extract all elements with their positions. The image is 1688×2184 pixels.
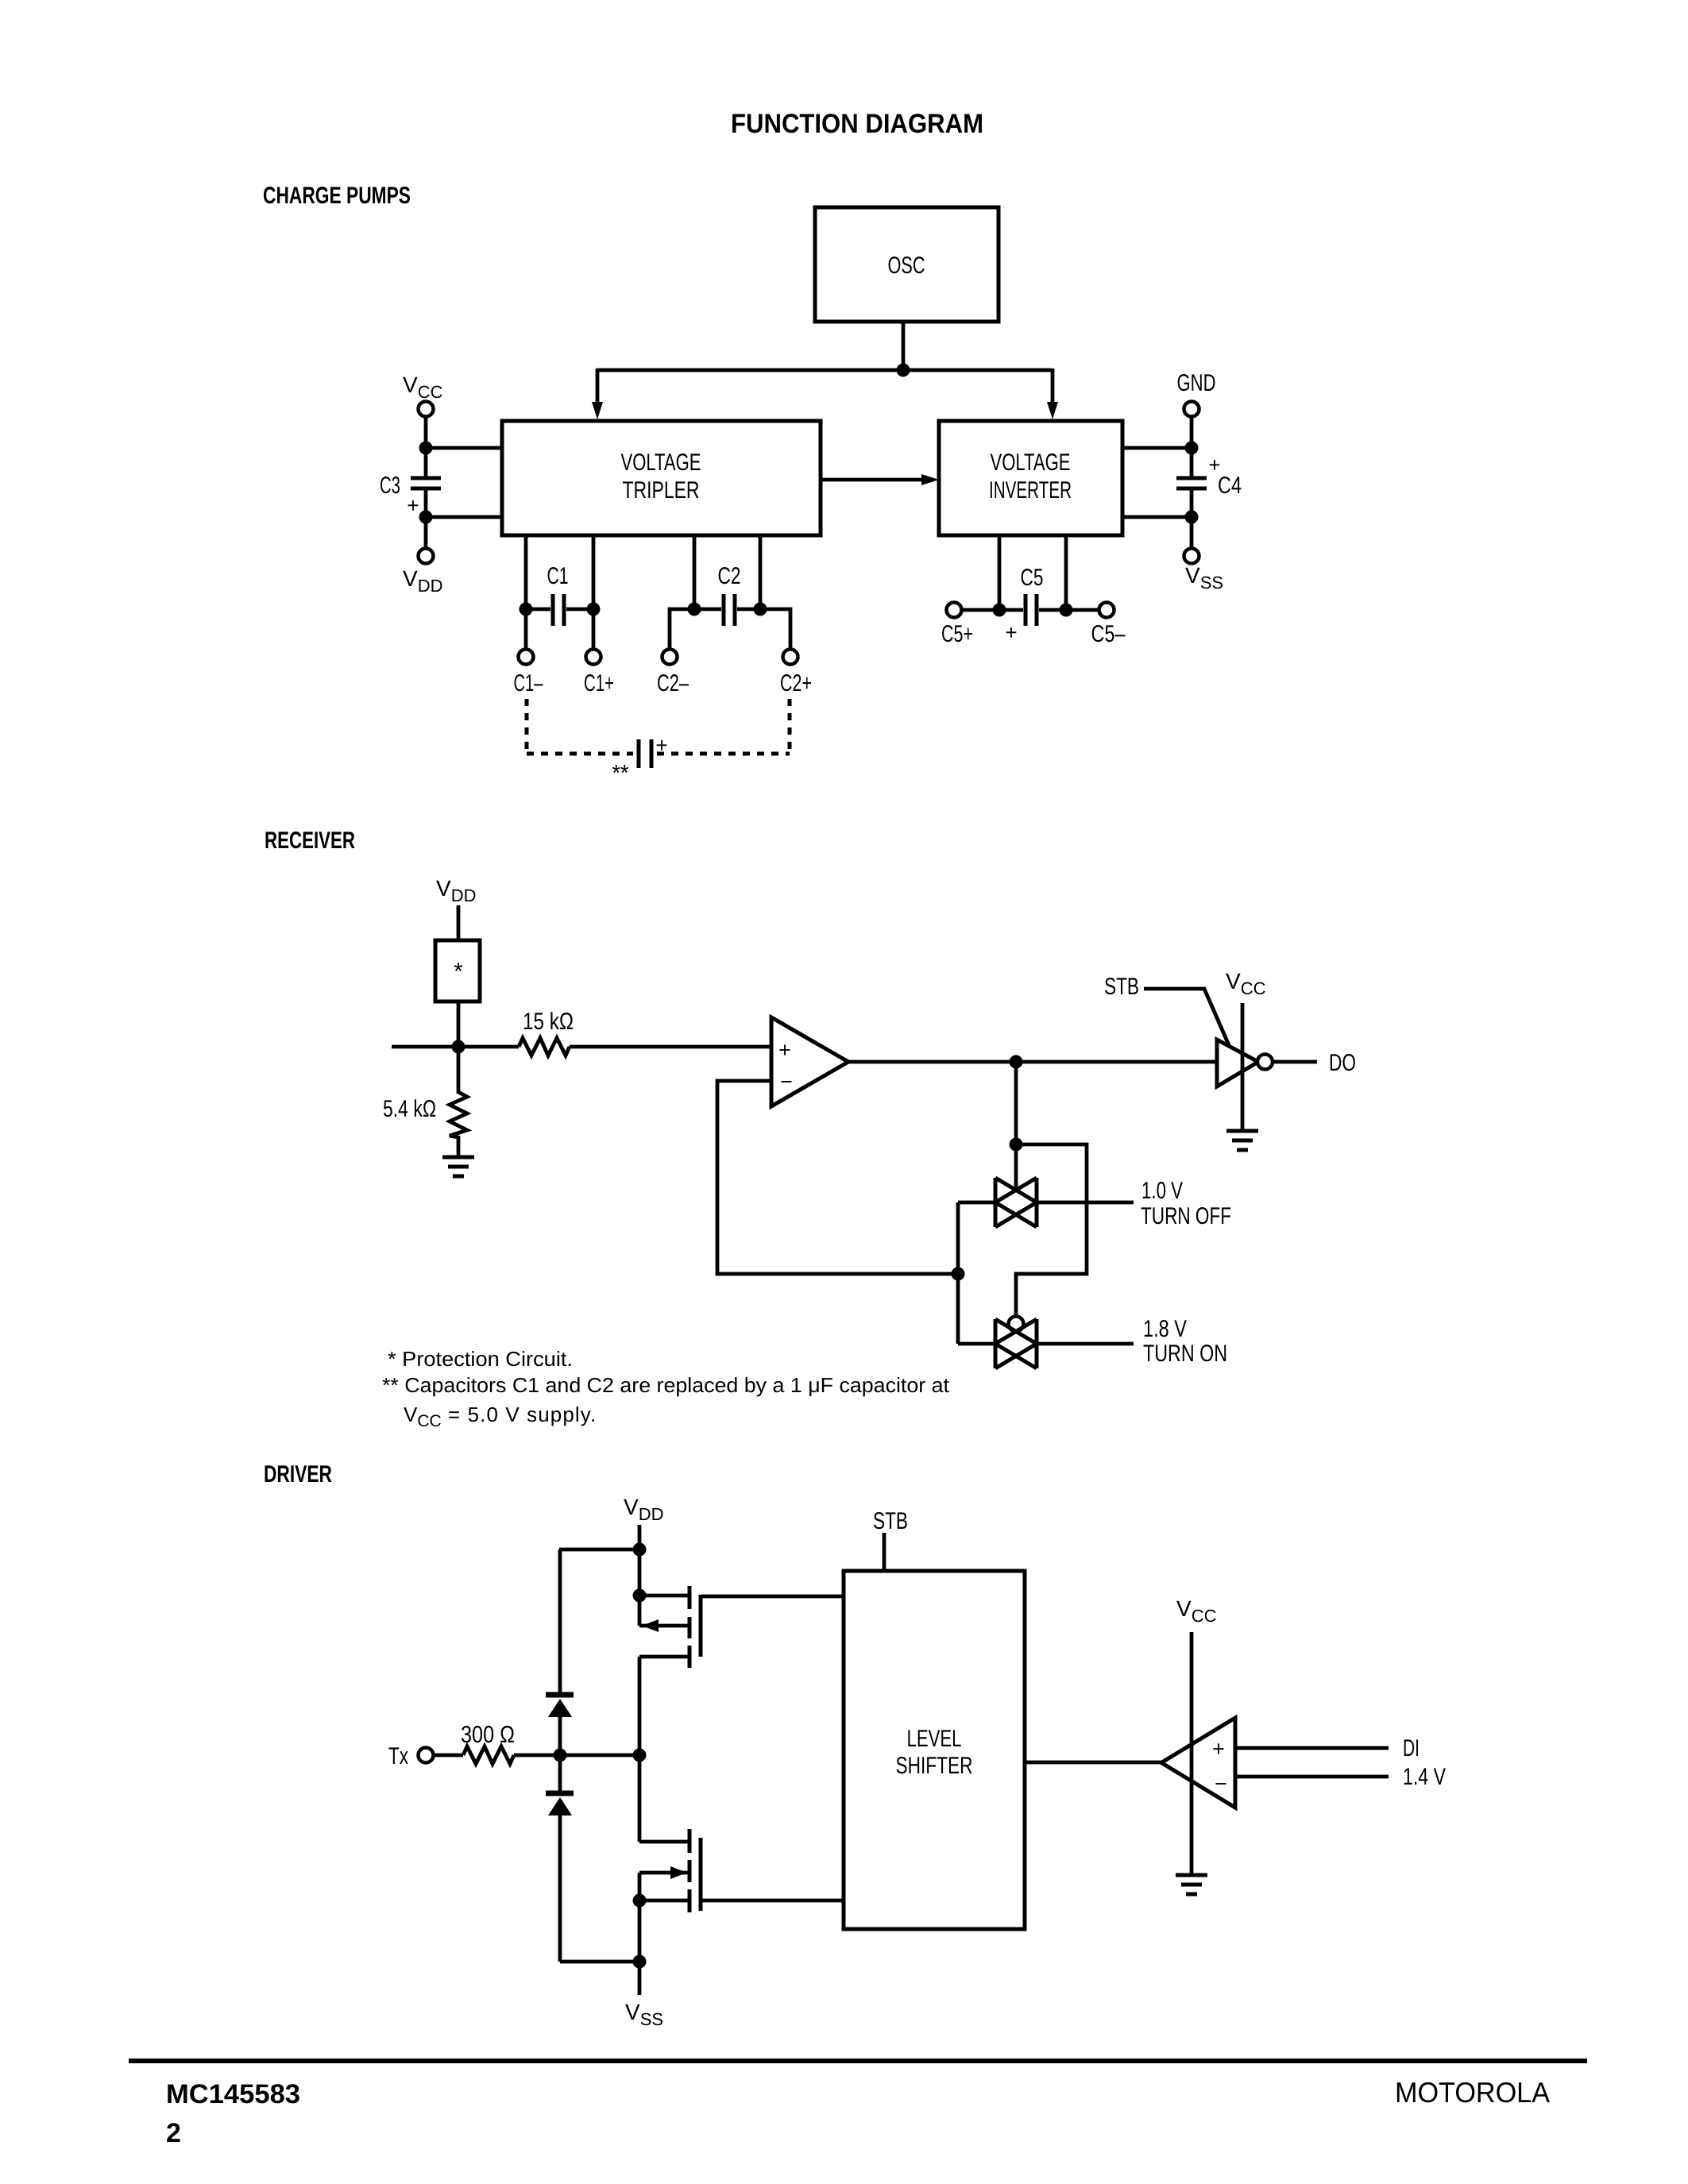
svg-text:C2: C2: [718, 563, 741, 589]
wire STB: [1144, 989, 1229, 1045]
oscillator block OSC: [815, 207, 999, 322]
wire PMOS gate to level shifter: [701, 1595, 844, 1599]
terminal Tx: [419, 1748, 434, 1763]
svg-text:5.4 kΩ: 5.4 kΩ: [383, 1096, 436, 1122]
wire 15k to op-amp: [570, 1045, 771, 1049]
node receiver input: [452, 1040, 465, 1054]
svg-text:1.8 V: 1.8 V: [1143, 1316, 1187, 1342]
svg-text:TURN ON: TURN ON: [1143, 1341, 1227, 1367]
wire C2- jog: [670, 609, 694, 650]
svg-text:DI: DI: [1403, 1735, 1420, 1761]
wire S2 right to 1.8V: [1037, 1342, 1134, 1346]
svg-text:+: +: [1005, 620, 1017, 644]
wire dashed C2+ drop: [788, 699, 792, 754]
node osc rail junction: [897, 364, 910, 377]
ground (comparator): [1176, 1875, 1207, 1894]
protection circuit box *: [435, 940, 480, 1001]
wire clock rail: [597, 369, 1053, 372]
wire level shifter to comparator: [1025, 1761, 1161, 1765]
svg-text:C1+: C1+: [584, 670, 614, 696]
wire rail to tripler: [596, 369, 600, 403]
wire node to tripler left top: [426, 446, 502, 450]
wire VDD rail to diodes: [559, 1548, 639, 1552]
node diode clamp: [554, 1749, 567, 1762]
wire VDD to PMOS source: [638, 1549, 642, 1596]
wire protection to node: [457, 1001, 461, 1047]
resistor 15k: [519, 1038, 570, 1055]
node PMOS source: [633, 1589, 647, 1603]
svg-text:−: −: [780, 1070, 793, 1094]
wire node to 5.4k: [457, 1047, 461, 1094]
svg-text:+: +: [655, 733, 667, 757]
svg-text:C1: C1: [547, 563, 569, 589]
wire tripler pin stub 1: [524, 535, 528, 609]
wire dashed bottom right: [657, 752, 790, 756]
wire VCC to node: [424, 417, 428, 448]
wire node to C4: [1190, 448, 1194, 477]
wire dashed bottom left: [527, 752, 633, 756]
wire C2+ jog: [760, 609, 790, 650]
node C3 top: [419, 442, 433, 455]
block VOLTAGE TRIPLER: [502, 421, 821, 535]
wire VSS stub: [638, 1962, 642, 1995]
wire 1.4V input: [1235, 1775, 1389, 1779]
capacitor C2: [688, 563, 767, 626]
svg-text:STB: STB: [1104, 974, 1139, 1000]
wire S1 right to 1.0V: [1037, 1201, 1134, 1205]
wire C1+ stub: [592, 609, 596, 650]
wire C3 to node: [424, 490, 428, 517]
capacitor C4: [1176, 453, 1242, 499]
svg-text:C2–: C2–: [657, 670, 689, 696]
capacitor C3: [380, 473, 441, 517]
analog switch S1 (1.0 V TURN OFF): [995, 1178, 1037, 1227]
svg-text:300 Ω: 300 Ω: [461, 1722, 515, 1748]
terminal C1-: [519, 650, 534, 665]
tri-state buffer DO: [1217, 1040, 1273, 1086]
svg-text:C2+: C2+: [780, 670, 812, 696]
svg-text:C5–: C5–: [1091, 621, 1126, 647]
footer rule: [129, 2059, 1587, 2063]
wire output to switch control: [1014, 1062, 1018, 1144]
svg-text:STB: STB: [873, 1508, 908, 1534]
svg-text:TURN OFF: TURN OFF: [1141, 1203, 1231, 1229]
arrowhead into tripler: [592, 402, 603, 419]
node C4 bottom: [1185, 511, 1199, 524]
transistor Q1 PMOS: [639, 1586, 701, 1668]
wire control to switch S1: [1014, 1144, 1018, 1191]
wire NMOS gate to level shifter: [701, 1899, 844, 1903]
node NMOS source: [633, 1894, 647, 1908]
wire inverter pin stub 2: [1064, 535, 1068, 610]
svg-text:OSC: OSC: [888, 253, 925, 279]
resistor 5.4k: [450, 1092, 467, 1137]
op-amp U1: [771, 1017, 848, 1106]
svg-text:MC145583: MC145583: [166, 2079, 300, 2109]
wire 5.4k to ground: [457, 1136, 461, 1157]
wire diode chain middle: [558, 1755, 562, 1793]
svg-text:−: −: [1215, 1772, 1227, 1796]
svg-text:**: **: [612, 761, 629, 786]
svg-text:Tx: Tx: [388, 1743, 408, 1769]
wire feedback bus: [956, 1202, 960, 1344]
svg-text:C5+: C5+: [941, 621, 973, 647]
terminal C2-: [662, 650, 678, 665]
wire resistor to transistors: [514, 1754, 639, 1758]
resistor 300 ohm: [463, 1746, 514, 1764]
arrowhead into inverter: [1047, 402, 1058, 419]
capacitor C1: [520, 563, 601, 626]
svg-text:+: +: [778, 1038, 791, 1062]
terminal C5-: [1099, 603, 1114, 618]
wire NMOS source to VSS rail: [638, 1900, 642, 1962]
svg-text:FUNCTION DIAGRAM: FUNCTION DIAGRAM: [731, 109, 983, 139]
wire node to VSS: [1190, 517, 1194, 548]
svg-text:GND: GND: [1177, 370, 1216, 396]
capacitor ** replacement: [612, 733, 668, 786]
terminal VSS: [1184, 549, 1199, 564]
svg-text:* Protection Circuit.: * Protection Circuit.: [388, 1347, 573, 1371]
comparator U2: [1161, 1718, 1235, 1808]
wire STB to level shifter: [883, 1533, 886, 1571]
wire tripler pin stub 4: [759, 535, 763, 609]
node C3 bottom: [419, 511, 433, 524]
wire VSS rail: [560, 1960, 639, 1964]
wire VCC buffer: [1241, 1003, 1245, 1131]
wire GND to node: [1190, 417, 1194, 448]
wire node to VDD: [424, 517, 428, 548]
svg-text:15 kΩ: 15 kΩ: [523, 1009, 574, 1035]
ground (receiver divider): [442, 1157, 474, 1176]
svg-text:1.0 V: 1.0 V: [1141, 1178, 1183, 1204]
svg-text:C5: C5: [1021, 565, 1044, 591]
svg-text:TRIPLER: TRIPLER: [623, 477, 700, 504]
wire S2 left: [958, 1342, 995, 1346]
wire PMOS drain to Tx node: [638, 1657, 642, 1755]
node VDD rail: [633, 1543, 647, 1557]
svg-text:+: +: [407, 493, 419, 517]
node driver output: [633, 1749, 647, 1762]
wire rail to inverter: [1051, 369, 1055, 403]
svg-text:C3: C3: [380, 473, 400, 499]
wire inverter pin stub 1: [998, 535, 1002, 610]
analog switch S2 (1.8 V TURN ON): [995, 1317, 1037, 1369]
diode D2 (from VSS): [546, 1793, 574, 1962]
node VSS rail: [633, 1955, 647, 1969]
wire tripler pin stub 3: [693, 535, 697, 609]
svg-text:+: +: [1212, 1737, 1225, 1761]
svg-text:*: *: [454, 959, 463, 985]
wire C1- stub: [524, 609, 528, 650]
svg-text:LEVEL: LEVEL: [907, 1726, 962, 1752]
terminal C1+: [586, 650, 601, 665]
wire VDD down: [638, 1525, 642, 1549]
svg-text:VOLTAGE: VOLTAGE: [621, 450, 701, 476]
wire op-amp output: [848, 1060, 1217, 1064]
svg-text:SHIFTER: SHIFTER: [896, 1753, 973, 1779]
svg-text:DO: DO: [1329, 1050, 1356, 1076]
wire C5-: [1066, 608, 1099, 612]
terminal C5+: [947, 603, 962, 618]
svg-text:C4: C4: [1218, 473, 1242, 499]
svg-text:CHARGE PUMPS: CHARGE PUMPS: [263, 183, 411, 209]
svg-text:C1–: C1–: [514, 670, 543, 696]
wire C4 to node: [1190, 490, 1194, 517]
svg-text:2: 2: [166, 2118, 181, 2148]
arrowhead into inverter input: [921, 474, 939, 485]
wire tripler pin stub 2: [592, 535, 596, 609]
wire DI input: [1235, 1746, 1389, 1750]
wire C5+: [962, 608, 999, 612]
wire control jog to switch S2: [1016, 1144, 1087, 1316]
wire S1 left: [958, 1201, 995, 1205]
wire inverter right top to node: [1122, 446, 1192, 450]
wire inverter right bottom to node: [1122, 515, 1192, 519]
terminal GND: [1184, 402, 1199, 417]
wire node to C3: [424, 448, 428, 477]
node control junction: [1010, 1138, 1023, 1152]
node output junction: [1010, 1055, 1023, 1069]
block LEVEL SHIFTER: [844, 1571, 1025, 1929]
svg-text:MOTOROLA: MOTOROLA: [1395, 2076, 1550, 2109]
svg-text:VOLTAGE: VOLTAGE: [991, 450, 1071, 476]
wire DO output: [1273, 1060, 1317, 1064]
wire OSC output: [902, 322, 906, 370]
wire VDD to protection: [457, 905, 461, 940]
wire diode chain top: [558, 1549, 562, 1695]
wire receiver input: [392, 1045, 519, 1049]
wire op-amp inverting input: [717, 1081, 958, 1274]
svg-text:1.4 V: 1.4 V: [1403, 1764, 1446, 1790]
capacitor C5: [993, 565, 1073, 644]
wire node to tripler left bottom: [426, 515, 502, 519]
diode D1 (to VDD): [546, 1695, 574, 1755]
node C4 top: [1185, 442, 1199, 455]
svg-text:INVERTER: INVERTER: [989, 477, 1072, 504]
wire Tx to resistor: [434, 1754, 463, 1758]
terminal VCC: [419, 402, 434, 417]
ground (buffer): [1226, 1131, 1258, 1150]
terminal VDD: [419, 549, 434, 564]
wire VCC comparator: [1190, 1632, 1194, 1875]
svg-text:DRIVER: DRIVER: [264, 1461, 332, 1488]
wire tripler to inverter: [821, 478, 923, 482]
node feedback junction: [952, 1268, 965, 1281]
terminal C2+: [783, 650, 798, 665]
svg-text:RECEIVER: RECEIVER: [265, 828, 355, 854]
svg-text:** Capacitors C1 and C2 are re: ** Capacitors C1 and C2 are replaced by …: [382, 1373, 950, 1397]
wire dashed C1- drop: [525, 699, 529, 754]
transistor Q2 NMOS: [639, 1755, 701, 1912]
block VOLTAGE INVERTER: [939, 421, 1122, 535]
